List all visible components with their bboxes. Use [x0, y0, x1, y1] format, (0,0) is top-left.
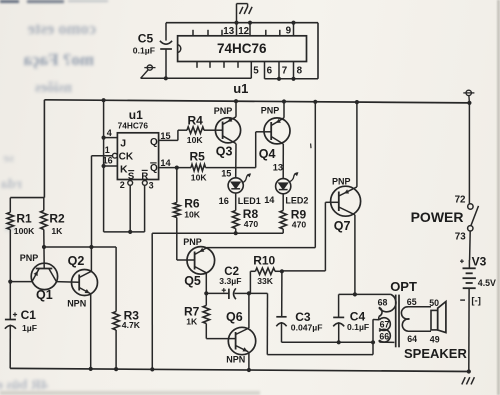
resistor R7	[205, 293, 207, 305]
svg-text:6: 6	[267, 65, 273, 76]
flip-flop u1 74HC76 block	[117, 133, 158, 180]
wire - FF bottom bus (pins 2/3)	[104, 231, 145, 233]
wire - OPT tap riser	[372, 319, 374, 354]
wire - C4 top / OPT pin 68 line	[339, 293, 391, 295]
transformer core	[395, 295, 397, 348]
wire - LED2 to R9	[282, 194, 284, 211]
svg-text:R4: R4	[188, 113, 204, 127]
svg-text:Q4: Q4	[259, 147, 276, 161]
svg-text:66: 66	[379, 331, 389, 341]
capacitor C5	[165, 23, 167, 41]
svg-text:LED2: LED2	[285, 195, 308, 205]
wire - pins 6/7/8 bottom bracket	[265, 78, 319, 80]
transformer secondary winding	[408, 306, 431, 308]
svg-text:74HC76: 74HC76	[217, 41, 267, 56]
wire - R5 to Q4 base	[206, 167, 256, 169]
ground (bottom right)	[462, 377, 465, 384]
svg-text:10K: 10K	[184, 210, 201, 220]
battery V3 4.5V	[460, 260, 464, 262]
capacitor C2 (3.3uF)	[206, 292, 229, 294]
svg-text:Q7: Q7	[334, 219, 351, 233]
wire - Q4 emitter to rail	[283, 102, 285, 118]
svg-text:R6: R6	[184, 197, 200, 211]
wire - bottom return to pin 5	[141, 77, 252, 79]
svg-text:PNP: PNP	[20, 253, 39, 263]
svg-text:15: 15	[160, 131, 170, 141]
wire - Q6 emitter to ground bus	[248, 352, 250, 370]
wire - switch to battery	[469, 231, 472, 260]
wire - Q1 collector to Q2 base	[56, 281, 79, 284]
svg-text:10K: 10K	[191, 172, 208, 182]
resistor R6	[176, 168, 178, 203]
wire - bus drop to ground	[151, 233, 153, 369]
OPT pin 67 tap wire	[373, 319, 379, 321]
svg-text:NPN: NPN	[226, 355, 245, 365]
wire - R10 node to Q7 base	[282, 270, 326, 272]
svg-text:64: 64	[407, 334, 417, 344]
stray mark	[310, 144, 312, 149]
wire - top frame of IC	[166, 22, 318, 24]
svg-text:0.047µF: 0.047µF	[291, 322, 323, 332]
svg-text:14: 14	[160, 158, 171, 168]
resistor R2	[43, 198, 45, 211]
svg-text:16: 16	[219, 196, 229, 206]
svg-text:Q2: Q2	[68, 254, 85, 268]
pin 8 wire	[293, 62, 295, 79]
svg-text:[-]: [-]	[471, 295, 481, 306]
svg-text:0.1µF: 0.1µF	[347, 322, 369, 332]
wire - Q2 collector / CK line	[90, 247, 92, 271]
wire - LED1 to R8	[235, 193, 237, 211]
svg-text:9: 9	[286, 26, 292, 37]
svg-text:0.1µF: 0.1µF	[133, 46, 155, 56]
svg-text:CK: CK	[119, 152, 134, 163]
wire - Q1 base node to R3	[44, 246, 116, 248]
wire - LED/R8/R9 bottom bus	[152, 232, 283, 234]
svg-text:C1: C1	[21, 308, 37, 322]
svg-text:PNP: PNP	[332, 177, 351, 187]
svg-text:14: 14	[264, 195, 275, 205]
svg-text:PNP: PNP	[214, 106, 233, 116]
svg-text:4.7K: 4.7K	[122, 320, 141, 330]
wire - Q4 collector to LED2	[282, 144, 284, 179]
resistor R8	[232, 211, 239, 229]
ground bus (bottom)	[10, 368, 469, 371]
svg-text:Q1: Q1	[36, 288, 53, 302]
svg-text:J: J	[120, 138, 126, 150]
wire - Q2 emitter to ground	[90, 294, 92, 369]
resistor R10	[249, 292, 251, 294]
svg-text:Q: Q	[150, 163, 158, 174]
svg-text:12: 12	[238, 26, 249, 37]
svg-text:72: 72	[455, 194, 466, 205]
pin 12 wire	[249, 23, 251, 36]
capacitor C4 (0.1uF)	[338, 294, 340, 317]
transistor Q7 (PNP)	[331, 186, 361, 216]
IC u1 74HC76 DIP package	[178, 36, 307, 62]
svg-text:74HC76: 74HC76	[118, 120, 149, 130]
svg-text:R1: R1	[16, 212, 32, 226]
transistor Q4 (PNP)	[264, 118, 290, 144]
svg-text:POWER: POWER	[411, 209, 464, 225]
wire - Q3 emitter to rail	[235, 101, 237, 117]
transistor Q6 (NPN)	[228, 327, 255, 354]
svg-text:R10: R10	[253, 254, 275, 268]
wire - C3/C4 bottom bus to OPT pin67	[282, 341, 374, 343]
resistor R9	[280, 211, 287, 230]
svg-text:13: 13	[223, 26, 234, 37]
svg-text:K: K	[120, 164, 128, 176]
svg-text:C5: C5	[138, 32, 154, 46]
svg-text:Q: Q	[150, 137, 158, 148]
svg-text:2: 2	[120, 180, 125, 190]
transistor Q1 (PNP)	[31, 263, 57, 289]
pin 16 wire (K)	[104, 165, 118, 167]
wire - battery minus to ground	[468, 288, 470, 371]
transistor Q2 (NPN)	[72, 270, 98, 296]
wire - Q3 collector to LED1	[235, 144, 237, 178]
svg-text:PNP: PNP	[183, 237, 202, 247]
resistor R1	[9, 198, 11, 213]
svg-text:u1: u1	[233, 81, 248, 96]
svg-text:16: 16	[103, 156, 113, 166]
pin 13 wire	[236, 23, 238, 36]
svg-text:33K: 33K	[257, 276, 274, 286]
top rail (V+ supply line)	[44, 100, 469, 103]
svg-text:Q3: Q3	[216, 144, 233, 158]
svg-text:1K: 1K	[51, 226, 63, 236]
svg-text:LED1: LED1	[238, 196, 261, 206]
wire - C2 node to right/down loop	[249, 292, 268, 294]
svg-text:73: 73	[455, 232, 466, 243]
svg-text:1: 1	[105, 145, 110, 155]
wire - rail to power switch	[468, 103, 470, 204]
LED2	[276, 179, 291, 194]
svg-text:50: 50	[429, 298, 439, 308]
svg-text:3.3µF: 3.3µF	[219, 276, 241, 286]
speaker	[431, 310, 438, 330]
svg-text:13: 13	[273, 163, 283, 173]
wire - right frame down	[317, 23, 319, 79]
svg-text:10K: 10K	[187, 135, 204, 145]
supply terminal (top right circle)	[466, 90, 471, 95]
svg-text:4.5V: 4.5V	[478, 278, 496, 288]
input terminal (left, circle)	[147, 65, 152, 70]
svg-text:470: 470	[244, 219, 259, 229]
resistor R4	[178, 129, 187, 131]
wire - Q7 collector to OPT/C4 node	[354, 215, 356, 295]
svg-text:3: 3	[149, 181, 154, 191]
wire - lower loop to OPT	[267, 354, 373, 356]
wire - rail left corner down to R1/R2	[43, 100, 45, 198]
svg-text:7: 7	[282, 65, 288, 76]
svg-text:5: 5	[253, 65, 259, 76]
transistor Q5 (PNP)	[177, 259, 195, 261]
svg-text:100K: 100K	[14, 226, 35, 236]
svg-text:Q5: Q5	[184, 274, 201, 288]
pin 14 wire (Qbar output)	[159, 167, 191, 169]
resistor R3	[115, 247, 117, 312]
transistor Q3 (PNP)	[215, 118, 240, 143]
pin 5 wire	[250, 62, 252, 79]
svg-text:Q6: Q6	[226, 310, 243, 324]
svg-text:R2: R2	[49, 212, 65, 226]
wire - rail drop to FF (pins 4/16)	[103, 100, 105, 232]
svg-text:1µF: 1µF	[22, 323, 37, 333]
wire - Q5 collector junction	[205, 273, 207, 294]
svg-text:4: 4	[107, 128, 112, 138]
wire - Q6 collector up to C2 node	[248, 293, 250, 328]
svg-text:67: 67	[380, 320, 390, 330]
pin 4 wire (J)	[104, 137, 118, 139]
svg-text:8: 8	[297, 65, 303, 76]
ground (top, at IC pins 13/12)	[236, 4, 238, 23]
svg-text:65: 65	[407, 297, 417, 307]
capacitor C3 (0.047uF)	[281, 271, 283, 316]
svg-text:SPEAKER: SPEAKER	[404, 346, 467, 361]
wire - Q1 emitter to left rail	[10, 281, 32, 283]
pin 3 wire with bubble	[142, 181, 147, 186]
pin 1 wire (CK) with bubble	[92, 155, 113, 157]
pin 6 wire	[264, 62, 266, 79]
LED1	[228, 178, 243, 193]
svg-text:68: 68	[378, 298, 388, 308]
svg-text:V3: V3	[472, 254, 487, 268]
pin 9 wire	[293, 23, 295, 36]
pin 2 wire with bubble	[128, 181, 133, 186]
svg-text:OPT: OPT	[390, 279, 417, 294]
svg-text:15: 15	[221, 168, 231, 178]
svg-text:1K: 1K	[186, 317, 198, 327]
pin 7 wire	[278, 62, 280, 79]
capacitor C1 (1uF)	[13, 314, 17, 316]
wire - Q5 emitter to rail (long)	[207, 247, 315, 249]
resistor R5	[191, 164, 206, 171]
wire - Q7 emitter to rail	[356, 102, 358, 187]
pin 15 wire (Q output)	[159, 139, 178, 141]
svg-text:470: 470	[292, 220, 307, 230]
svg-text:R5: R5	[190, 150, 206, 164]
svg-text:NPN: NPN	[67, 298, 86, 308]
svg-text:PNP: PNP	[261, 106, 280, 116]
svg-text:49: 49	[430, 335, 440, 345]
